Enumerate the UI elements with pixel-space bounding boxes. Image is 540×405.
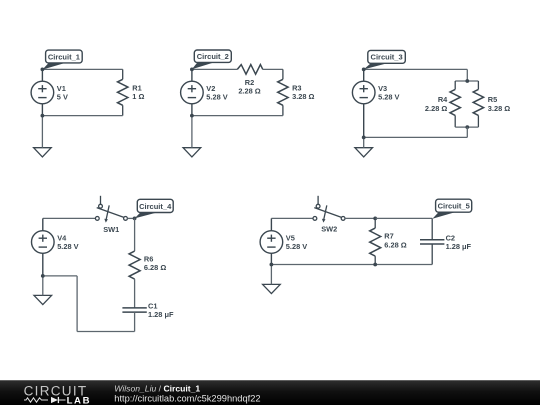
svg-text:5 V: 5 V bbox=[57, 93, 68, 102]
voltage source V5 bbox=[260, 218, 283, 264]
resistor R4 bbox=[450, 81, 460, 127]
svg-text:R4: R4 bbox=[438, 95, 448, 104]
wire circuit2 ground lead bbox=[191, 116, 193, 148]
wire circuit1 bottom rail bbox=[42, 115, 122, 117]
svg-text:6.28 Ω: 6.28 Ω bbox=[144, 263, 166, 272]
node circuit4 bottom junction bbox=[41, 274, 45, 278]
svg-text:LAB: LAB bbox=[67, 395, 92, 405]
svg-text:R1: R1 bbox=[132, 84, 141, 93]
resistor R5 bbox=[473, 81, 483, 127]
capacitor C1 bbox=[122, 308, 146, 312]
svg-text:SW1: SW1 bbox=[103, 225, 119, 234]
wire circuit5 top rail mid bbox=[345, 217, 375, 219]
footer bar bbox=[0, 381, 540, 405]
svg-text:1 Ω: 1 Ω bbox=[132, 92, 144, 101]
resistor R6 bbox=[129, 251, 140, 279]
wire circuit4 left riser bbox=[76, 276, 78, 332]
wire circuit5 top rail left bbox=[271, 217, 313, 219]
svg-text:R2: R2 bbox=[245, 78, 254, 87]
capacitor C2 leads bbox=[431, 218, 433, 264]
svg-text:6.28 Ω: 6.28 Ω bbox=[384, 240, 406, 249]
node circuit5 bottom junction bbox=[270, 263, 274, 267]
logo resistor squiggle bbox=[24, 398, 48, 402]
node label Circuit_5 bbox=[432, 199, 471, 219]
svg-text:V2: V2 bbox=[206, 84, 215, 93]
node circuit4 top-right junction bbox=[133, 217, 137, 221]
wire circuit5 bottom rail bbox=[271, 264, 432, 266]
node label Circuit_4 bbox=[135, 199, 174, 218]
ground circuit5 bbox=[263, 284, 281, 293]
wire circuit4 bottom rail bbox=[77, 331, 135, 333]
svg-text:V3: V3 bbox=[378, 84, 387, 93]
svg-text:R3: R3 bbox=[292, 83, 301, 92]
voltage source V3 bbox=[352, 69, 375, 137]
resistor R7 bbox=[370, 218, 381, 264]
svg-text:5.28 V: 5.28 V bbox=[378, 93, 399, 102]
svg-text:V5: V5 bbox=[286, 233, 295, 242]
svg-text:http://circuitlab.com/c5k299hn: http://circuitlab.com/c5k299hndqf22 bbox=[114, 394, 260, 404]
svg-text:Circuit_4: Circuit_4 bbox=[139, 202, 172, 211]
wire circuit1 top rail bbox=[42, 68, 122, 70]
node label Circuit_3 bbox=[364, 50, 406, 69]
svg-text:Circuit_2: Circuit_2 bbox=[197, 52, 229, 61]
wire circuit4 right branch upper bbox=[134, 218, 136, 251]
svg-text:2.28 Ω: 2.28 Ω bbox=[238, 87, 260, 96]
svg-text:C1: C1 bbox=[148, 302, 157, 311]
node circuit2 top junction bbox=[190, 68, 194, 72]
wire circuit3 top rail bbox=[364, 68, 468, 70]
wire circuit4 ground lead bbox=[42, 276, 44, 296]
svg-text:C2: C2 bbox=[446, 233, 455, 242]
CircuitLab logo wordmark bbox=[24, 384, 92, 405]
svg-text:3.28 Ω: 3.28 Ω bbox=[292, 92, 314, 101]
wire circuit3 right riser bbox=[466, 127, 468, 137]
resistor R2 bbox=[237, 65, 262, 75]
capacitor C2 bbox=[420, 240, 444, 244]
ground circuit3 bbox=[355, 148, 373, 157]
switch SW2 bbox=[313, 196, 345, 223]
svg-text:1.28 μF: 1.28 μF bbox=[446, 242, 472, 251]
wire circuit2 bottom rail bbox=[192, 115, 283, 117]
svg-text:R6: R6 bbox=[144, 254, 153, 263]
svg-text:Circuit_3: Circuit_3 bbox=[371, 53, 403, 62]
wire circuit4 top rail left bbox=[43, 217, 96, 219]
logo diode symbol bbox=[51, 397, 66, 403]
node circuit3 bottom junction bbox=[362, 136, 366, 140]
wire circuit1 ground lead bbox=[41, 116, 43, 148]
node circuit3 parallel top junction bbox=[465, 79, 469, 83]
ground circuit4 bbox=[34, 295, 52, 304]
wire circuit4 R6 to C1 bbox=[134, 279, 136, 308]
voltage source V1 bbox=[31, 69, 54, 115]
wire circuit3 ground lead bbox=[363, 137, 365, 147]
node label Circuit_1 bbox=[42, 50, 82, 70]
svg-text:R7: R7 bbox=[384, 232, 393, 241]
node circuit5 R7 bottom junction bbox=[373, 263, 377, 267]
svg-text:Wilson_Liu / Circuit_1: Wilson_Liu / Circuit_1 bbox=[114, 384, 200, 394]
wire circuit3 bottom rail bbox=[364, 136, 468, 138]
svg-text:5.28 V: 5.28 V bbox=[57, 242, 78, 251]
voltage source V2 bbox=[181, 69, 204, 115]
wire circuit5 ground lead bbox=[270, 265, 272, 285]
svg-text:Circuit_5: Circuit_5 bbox=[438, 202, 470, 211]
svg-text:SW2: SW2 bbox=[321, 225, 337, 234]
node circuit1 bottom junction bbox=[41, 114, 45, 118]
voltage source V4 bbox=[32, 218, 55, 276]
wire circuit3 parallel bottom bar bbox=[455, 126, 478, 128]
svg-text:Circuit_1: Circuit_1 bbox=[48, 52, 80, 61]
ground circuit2 bbox=[183, 148, 201, 157]
svg-text:2.28 Ω: 2.28 Ω bbox=[425, 104, 447, 113]
ground circuit1 bbox=[34, 148, 52, 157]
node circuit2 bottom junction bbox=[190, 114, 194, 118]
svg-text:3.28 Ω: 3.28 Ω bbox=[488, 104, 510, 113]
svg-text:1.28 μF: 1.28 μF bbox=[148, 310, 174, 319]
svg-text:R5: R5 bbox=[488, 95, 497, 104]
footer title text bbox=[114, 384, 260, 404]
node circuit1 top junction bbox=[41, 68, 45, 72]
node circuit3 top junction bbox=[362, 68, 366, 72]
wire circuit3 right drop bbox=[466, 69, 468, 81]
wire circuit2 top rail left bbox=[192, 68, 237, 70]
node circuit3 parallel bottom junction bbox=[465, 125, 469, 129]
wire circuit4 top rail right bbox=[127, 217, 134, 219]
svg-text:V1: V1 bbox=[57, 84, 66, 93]
wire circuit4 mid rail bbox=[43, 275, 77, 277]
node circuit5 R7 top junction bbox=[373, 217, 377, 221]
resistor R1 bbox=[118, 69, 128, 115]
switch SW1 bbox=[95, 196, 127, 223]
svg-text:5.28 V: 5.28 V bbox=[206, 93, 227, 102]
wire circuit3 parallel top bar bbox=[455, 80, 478, 82]
wire circuit4 C1 lower lead bbox=[134, 312, 136, 331]
svg-text:V4: V4 bbox=[57, 233, 67, 242]
wire circuit2 top rail right bbox=[263, 68, 283, 70]
svg-text:5.28 V: 5.28 V bbox=[286, 242, 307, 251]
resistor R3 bbox=[278, 69, 288, 115]
wire circuit5 top rail right bbox=[375, 217, 432, 219]
node label Circuit_2 bbox=[192, 50, 231, 69]
